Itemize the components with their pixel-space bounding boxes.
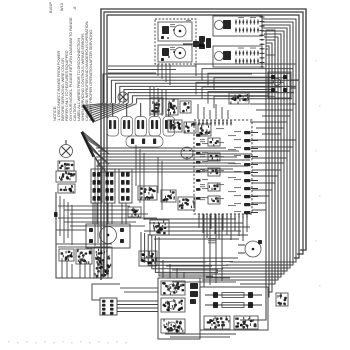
bottom horizontal bundle: [160, 261, 206, 263]
left center crossing wires: [58, 205, 130, 207]
pin column right of latches: [261, 16, 263, 18]
fuse holder: [276, 293, 288, 306]
part number marks above notice: [49, 2, 53, 13]
switch S7: [58, 184, 75, 193]
ribbon connector P1 with wire fan: [82, 104, 95, 123]
relay K1: [166, 99, 178, 115]
bundle below control board: [144, 218, 236, 220]
P4 to stack box link wires: [120, 287, 158, 289]
thermostat TH2: [139, 251, 157, 266]
relay K3: [138, 186, 157, 200]
left vertical harness below P2: [94, 158, 96, 246]
lamp terminals: [58, 161, 74, 171]
top right interior nested wires: [196, 64, 296, 76]
terminal block small box: [266, 30, 275, 55]
thermostat TH1: [150, 220, 169, 235]
surface indicator lamp: [118, 92, 128, 102]
clock cluster: [229, 93, 249, 104]
upper right taps: [250, 103, 296, 105]
component cluster center: [128, 207, 141, 217]
ribbon connector P2 with wire fan: [81, 131, 95, 158]
center horizontal wire bundle: [96, 147, 226, 149]
terminal strip TB1: [59, 249, 74, 261]
switch bank drop wires: [92, 203, 94, 224]
igniter switch cluster A: [168, 120, 182, 132]
right side wire bundle loops: [230, 19, 296, 262]
relay K4: [161, 190, 176, 202]
surface unit switch bank left: [91, 169, 102, 203]
harness connector P4 with bundle: [100, 298, 117, 315]
center left nested bundle: [103, 74, 252, 103]
surface unit switch bank right: [119, 169, 132, 203]
latch assembly lower with switch rows: [213, 46, 262, 67]
wire frame outer loop: [101, 9, 306, 280]
connector blob J3: [193, 41, 199, 47]
igniter switch cluster C: [198, 124, 211, 136]
terminal strip TB3: [94, 247, 112, 278]
board to lower box verticals: [203, 214, 205, 287]
box E internal drops: [61, 258, 63, 278]
door lock box detail marks: [167, 37, 169, 39]
latch assembly upper with switch rows: [213, 16, 262, 36]
igniter switch cluster B: [184, 122, 196, 133]
bottom edge wires: [165, 333, 236, 335]
board bottom pin drops: [198, 217, 200, 228]
connector blobs left of latches: [199, 36, 205, 42]
element assembly box lower right: [200, 287, 268, 330]
scanner artifact dots: [8, 341, 10, 342]
oven sensor circle: [181, 147, 193, 159]
oven lamp L1: [60, 145, 73, 158]
control board to bundle taps: [252, 139, 296, 141]
transformer T1: [150, 98, 163, 114]
bake broil element relay stack: [158, 278, 200, 339]
notice text block (rotated): [52, 17, 93, 121]
board tiny labels: [216, 128, 224, 129]
wires below door lock box: [108, 65, 196, 67]
svg-text:8101P: 8101P: [49, 2, 53, 13]
convection fan motor M2: [245, 241, 261, 257]
stack box feed wires: [162, 260, 164, 278]
electronic control board A1: [194, 120, 252, 214]
terminal strip TB2: [76, 249, 92, 264]
mid vertical link wires: [135, 145, 137, 186]
oval selector switch: [126, 136, 163, 147]
svg-text:W10: W10: [60, 3, 64, 11]
relay K2: [180, 101, 191, 113]
switch S6: [56, 171, 76, 182]
center bottom nested corners: [141, 232, 238, 258]
relay K9 top right corner: [268, 72, 291, 98]
wire frame second loop: [104, 12, 303, 277]
vertical drops to board top pins: [149, 86, 151, 116]
infinite switch row S1-S5: [107, 117, 119, 137]
left harness routing box: [56, 192, 112, 278]
latch labels: [238, 17, 244, 18]
cooling fan motor M1: [86, 224, 130, 248]
door lock assembly box with motors B1 B2: [155, 19, 196, 64]
left column link wires: [59, 196, 61, 236]
wire frame third loop: [107, 15, 299, 274]
svg-text:-6: -6: [73, 7, 77, 10]
relay K5: [178, 197, 195, 210]
